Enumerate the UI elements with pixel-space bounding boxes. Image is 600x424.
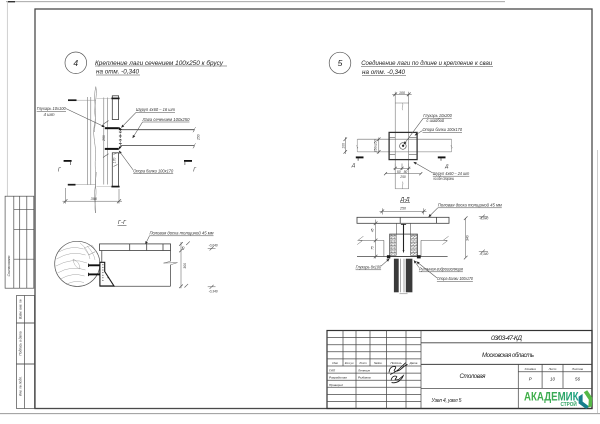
svg-text:5: 5	[338, 58, 343, 68]
svg-text:56: 56	[575, 377, 580, 382]
svg-text:-0,340: -0,340	[479, 252, 488, 256]
title block: doc number 03/03-47-КД	[421, 342, 592, 344]
svg-text:100: 100	[399, 91, 405, 95]
d4 post near edge lines	[104, 98, 108, 185]
dd elevation mark bottom right	[479, 250, 489, 256]
svg-text:Опора балки 100х170: Опора балки 100х170	[423, 127, 463, 132]
page scan edge right	[596, 150, 598, 413]
d5 dim 50 50 bottom	[394, 164, 411, 171]
d4 section mark Г right	[184, 161, 197, 174]
svg-text:-0,040: -0,040	[479, 217, 488, 221]
logo АКАДЕМИК СТРОЙ	[524, 389, 579, 408]
d5 section mark Д left	[351, 157, 364, 167]
svg-text:250х250: 250х250	[373, 140, 377, 154]
svg-text:4 шт: 4 шт	[44, 112, 55, 117]
d5 horizontal joist left cut	[357, 139, 358, 152]
svg-text:Р: Р	[529, 377, 532, 382]
d4 dim ticks for 250 on post	[103, 121, 109, 158]
svg-text:170: 170	[112, 158, 116, 164]
svg-text:50: 50	[404, 170, 408, 174]
d4 label лага сечением	[133, 117, 190, 138]
dd label рулонная гидроизоляция	[414, 260, 464, 271]
dd bottom flange bolts	[387, 255, 390, 258]
d5 horizontal joist right cut	[451, 139, 452, 152]
gg lag bolts into log	[89, 265, 101, 274]
TITLE BLOCK outer	[327, 331, 592, 409]
svg-text:100: 100	[341, 143, 345, 149]
d4 section mark Г left	[58, 161, 72, 174]
svg-text:Опора балки 100х170: Опора балки 100х170	[133, 168, 174, 173]
page scan edge dark dash top-left	[8, 1, 15, 3]
d4 joist end plate with screws (dashed)	[119, 130, 122, 146]
d4 plate bottom thick dash	[111, 186, 119, 188]
dd label глухарь 8х100	[356, 259, 390, 270]
svg-text:ГИП: ГИП	[329, 369, 336, 373]
svg-text:Крепление лаги сечением 100х25: Крепление лаги сечением 100х250 к брусу	[95, 59, 224, 67]
d4 lag screw bottom (глухарь)	[105, 146, 122, 150]
d4 bottom cut line right segment	[97, 186, 112, 188]
svg-text:250: 250	[399, 175, 406, 179]
d5 horizontal joist plan	[358, 139, 452, 152]
dd central screw	[401, 224, 406, 253]
d4 long break wavy line	[94, 87, 96, 214]
d4 timber plate (брус section)	[112, 96, 118, 187]
svg-text:Глухарь 8х100: Глухарь 8х100	[356, 265, 382, 270]
d4 lag screw top (глухарь)	[105, 127, 122, 130]
gg elevation mark bottom	[208, 285, 218, 294]
title block: signature table grid	[327, 331, 421, 409]
d5 label шуруп 4х60 24 шт	[414, 162, 470, 181]
d4 label опора балки	[119, 151, 174, 174]
gg joist section outline	[100, 251, 171, 287]
svg-text:-0,040: -0,040	[209, 244, 218, 248]
svg-text:250: 250	[102, 135, 106, 142]
d5 vertical joist plan	[395, 92, 409, 189]
svg-text:50: 50	[397, 170, 401, 174]
svg-text:45: 45	[371, 228, 375, 232]
d4 label шуруп 4х60	[121, 107, 175, 127]
svg-text:Стадия: Стадия	[525, 367, 537, 371]
svg-text:Столовая: Столовая	[460, 374, 487, 380]
svg-text:Проверил: Проверил	[329, 383, 343, 387]
dd left dim chain 45/75	[374, 220, 378, 259]
dd hanger box	[390, 234, 418, 256]
svg-text:45: 45	[181, 246, 185, 250]
page scan edge top	[6, 1, 505, 3]
dd joist top lines	[358, 240, 448, 256]
svg-text:Взам. инв. №: Взам. инв. №	[19, 299, 23, 319]
gg floor board	[100, 244, 171, 251]
d4 joist right break	[193, 127, 196, 148]
d4 top cut line right segment	[97, 97, 112, 99]
dd right dim 340	[464, 216, 468, 259]
dd right break zigzag	[442, 236, 448, 244]
svg-text:на отм. -0,340: на отм. -0,340	[362, 69, 405, 76]
dd joist bottom line	[357, 256, 448, 258]
svg-text:75: 75	[371, 246, 375, 250]
svg-text:Инв. № подл.: Инв. № подл.	[19, 376, 23, 396]
svg-text:Д: Д	[444, 163, 449, 168]
svg-text:на обе стороны: на обе стороны	[434, 176, 455, 181]
d4 joist (лага) outline	[120, 130, 194, 146]
svg-text:300: 300	[183, 263, 187, 269]
d5 vertical joist top cut line	[395, 103, 409, 110]
d4 bottom cut line with thick dash (left)	[68, 184, 96, 186]
svg-text:250: 250	[399, 207, 406, 211]
svg-text:Лага сечением 100х250: Лага сечением 100х250	[142, 117, 191, 122]
svg-text:Д-Д: Д-Д	[400, 197, 410, 203]
svg-text:4: 4	[73, 58, 78, 68]
svg-text:Разработал: Разработал	[329, 376, 347, 380]
dd floor board	[357, 217, 449, 223]
d4 dimension 390	[63, 188, 123, 204]
svg-text:Листов: Листов	[571, 367, 583, 371]
gg elevation mark top	[208, 244, 218, 251]
d4 post far edge lines	[87, 97, 91, 185]
svg-text:с шайбой: с шайбой	[427, 118, 445, 123]
svg-text:Рыбаков: Рыбаков	[358, 376, 371, 380]
logo icon house	[579, 390, 593, 409]
gg joist break zigzag	[164, 261, 178, 265]
title block: signatures squiggle	[389, 363, 408, 383]
dd left break zigzag	[357, 236, 363, 244]
dd label половая доска	[429, 203, 502, 217]
d4 dim 170 inside plate	[112, 153, 117, 167]
gg label половая доска	[145, 231, 213, 245]
gg right dim chain 45/300	[179, 241, 190, 288]
d5 section mark Д right	[438, 157, 450, 168]
svg-text:-0,340: -0,340	[209, 290, 218, 294]
svg-text:Половая доска толщиной 45 мм: Половая доска толщиной 45 мм	[438, 203, 502, 208]
d5 dim 250 bottom	[384, 172, 422, 175]
svg-text:390: 390	[91, 197, 98, 201]
left strip: Взам. инв. № box	[17, 296, 35, 324]
d5 hanger plate corner tabs	[389, 137, 417, 154]
detail 5 marker circle	[329, 52, 351, 74]
title block: stage table	[421, 364, 592, 408]
svg-text:Шуруп 4х60 – 16 шт: Шуруп 4х60 – 16 шт	[136, 107, 175, 112]
dd dim 250 top	[380, 208, 427, 214]
dd pile top between board and hanger	[396, 223, 410, 234]
left strip: Подпись и дата box	[17, 323, 35, 364]
left strip: approvals box (Согласовано)	[5, 196, 34, 288]
title block: role rows	[329, 369, 371, 387]
svg-text:340: 340	[465, 235, 469, 241]
svg-text:03/03-47-КД: 03/03-47-КД	[491, 335, 522, 342]
svg-text:Согласовано: Согласовано	[7, 256, 11, 277]
svg-text:на отм. -0,340: на отм. -0,340	[96, 69, 139, 76]
svg-text:Дата: Дата	[409, 361, 418, 365]
detail 5 title	[361, 59, 493, 76]
svg-text:Узел 4, узел 5: Узел 4, узел 5	[432, 398, 462, 404]
svg-text:Половая доска толщиной 45 мм: Половая доска толщиной 45 мм	[150, 231, 214, 236]
svg-text:Г-Г: Г-Г	[118, 220, 127, 226]
d5 label опора балки	[415, 127, 463, 135]
title block: header row labels	[332, 361, 417, 365]
svg-text:Соединение лаги по длине и кре: Соединение лаги по длине и крепление к с…	[361, 59, 492, 67]
section Г-Г title	[118, 220, 128, 226]
page scan edge left	[6, 2, 8, 196]
svg-text:Лист: Лист	[358, 361, 367, 365]
title block: Московская область row	[421, 363, 592, 365]
d5 label глухарь 10х200	[404, 113, 453, 144]
d4 label глухарь 10х100	[37, 106, 105, 127]
d5 hanger plate outer	[389, 132, 417, 159]
detail 4 title	[95, 59, 227, 76]
svg-text:Лист: Лист	[548, 367, 557, 371]
svg-text:Подпись и дата: Подпись и дата	[19, 331, 23, 355]
svg-text:Московская область: Московская область	[482, 353, 534, 359]
svg-text:250: 250	[196, 134, 200, 141]
d4 top cut line with thick dash (left)	[68, 99, 96, 101]
dd elevation mark top right	[479, 215, 489, 221]
d5 dim 100 top	[392, 93, 412, 97]
d5 vertical joist bottom cut line	[395, 182, 409, 189]
dd pile shaft below	[394, 259, 413, 294]
svg-text:Опора Балки 100х170: Опора Балки 100х170	[437, 276, 473, 281]
d5 center bolt circle	[400, 143, 407, 150]
d4 plate top thick dash	[111, 97, 119, 99]
d5 dim 250х250 inner	[373, 138, 380, 154]
gg angle bracket	[100, 262, 114, 286]
detail 4 marker circle	[65, 52, 87, 74]
dd hatched liner left	[390, 234, 396, 255]
dd label опора балки	[417, 262, 474, 282]
svg-text:Глухарь 10х100: Глухарь 10х100	[37, 106, 67, 111]
d5 dim 100 left	[341, 137, 347, 154]
dd hatched liner right	[411, 234, 418, 255]
gg log (бревно)	[55, 241, 100, 286]
svg-text:Подпись: Подпись	[390, 361, 402, 365]
svg-text:Изм: Изм	[332, 361, 337, 365]
svg-text:№док.: №док.	[374, 361, 383, 365]
page scan edge bottom	[0, 413, 600, 415]
svg-text:10: 10	[550, 377, 555, 382]
svg-text:Кол.уч.: Кол.уч.	[345, 361, 355, 365]
left strip: Инв. № подл. box	[17, 364, 35, 409]
svg-text:Лепехин: Лепехин	[357, 369, 370, 373]
svg-text:СТРОЙ: СТРОЙ	[561, 400, 577, 408]
section Д-Д title	[400, 197, 411, 203]
